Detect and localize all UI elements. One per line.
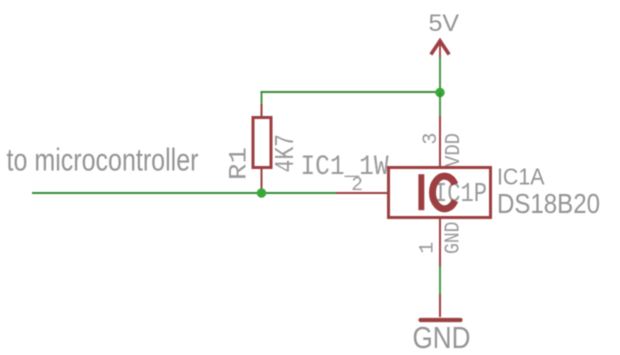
- svg-text:4K7: 4K7: [272, 134, 302, 173]
- svg-text:IC1_1W: IC1_1W: [301, 152, 389, 183]
- svg-text:DS18B20: DS18B20: [497, 188, 600, 219]
- svg-text:GND: GND: [413, 321, 471, 355]
- wire: 5V stem down to junction: [439, 57, 441, 93]
- svg-text:5V: 5V: [429, 10, 460, 37]
- wire: vertical stub above resistor: [261, 91, 263, 105]
- IC1A pin 2 (DQ) lead: [336, 192, 388, 194]
- wire: top horizontal net from resistor top to 5V junction: [261, 91, 441, 93]
- svg-text:VDD: VDD: [443, 133, 466, 167]
- svg-text:GND: GND: [443, 222, 466, 255]
- wire: GND net segment: [439, 266, 441, 295]
- wire: junction down to VDD pin: [439, 93, 441, 118]
- svg-text:R1: R1: [225, 147, 254, 180]
- junction dot at resistor bottom / net: [257, 188, 266, 197]
- op IC1A pin 3 (VDD) lead: [439, 116, 441, 166]
- ground symbol: [421, 294, 461, 320]
- big IC glyphs inside box: [418, 174, 424, 210]
- junction dot at 5V net: [435, 88, 444, 97]
- svg-text:2: 2: [351, 174, 363, 196]
- svg-text:3: 3: [420, 133, 443, 145]
- resistor R1: [253, 104, 271, 193]
- svg-text:to microcontroller: to microcontroller: [7, 141, 199, 177]
- svg-text:IC1A: IC1A: [497, 164, 545, 190]
- supply symbol 5V: [429, 10, 460, 58]
- IC1A pin 1 (GND) lead: [439, 219, 441, 267]
- wire: horizontal net from left edge to IC pin 2: [32, 192, 337, 194]
- svg-text:1: 1: [417, 242, 440, 254]
- IC U1 body box: [389, 168, 491, 218]
